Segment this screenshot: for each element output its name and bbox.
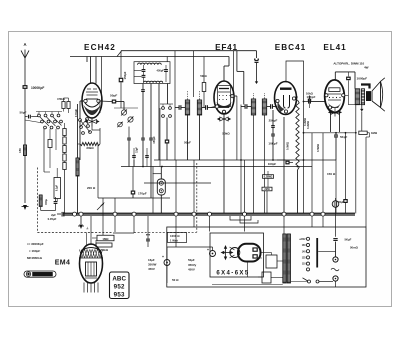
svg-text:952: 952: [114, 284, 125, 291]
svg-text:≈220V: ≈220V: [299, 238, 306, 241]
svg-text:50kΩ: 50kΩ: [222, 132, 230, 136]
svg-text:≈ 160pF: ≈ 160pF: [29, 249, 40, 253]
svg-text:150µ: 150µ: [44, 199, 48, 205]
svg-text:5KpF: 5KpF: [340, 135, 347, 139]
svg-text:0.1µF: 0.1µF: [56, 184, 59, 191]
svg-text:+: +: [207, 248, 209, 252]
svg-text:50kΩ: 50kΩ: [200, 74, 206, 78]
svg-text:ABC: ABC: [112, 276, 126, 283]
svg-text:10KpF: 10KpF: [307, 95, 316, 99]
svg-text:1 Watt: 1 Watt: [170, 238, 178, 242]
svg-text:≈≈ 3000KpF: ≈≈ 3000KpF: [27, 242, 44, 246]
svg-text:50mΩ: 50mΩ: [350, 246, 359, 250]
svg-text:1000KpF: 1000KpF: [31, 86, 44, 90]
svg-text:170pF: 170pF: [138, 192, 147, 196]
svg-text:EL41: EL41: [323, 43, 346, 52]
svg-text:100pF: 100pF: [268, 162, 277, 166]
svg-text:50pF: 50pF: [184, 141, 191, 145]
svg-text:150 Ω: 150 Ω: [327, 172, 336, 176]
svg-text:ALTOPARL. DINM 110: ALTOPARL. DINM 110: [333, 61, 364, 65]
svg-text:1000 Ω: 1000 Ω: [170, 234, 180, 238]
svg-text:150pF: 150pF: [123, 71, 127, 79]
svg-text:450V: 450V: [188, 268, 195, 272]
svg-text:EM4: EM4: [55, 260, 71, 267]
svg-text:EBC41: EBC41: [275, 43, 306, 52]
svg-text:+: +: [162, 255, 164, 259]
svg-text:A: A: [23, 42, 26, 47]
svg-text:⊥: ⊥: [86, 226, 89, 230]
svg-text:30kΩ: 30kΩ: [86, 146, 94, 150]
svg-text:0.5MΩ: 0.5MΩ: [286, 142, 290, 150]
svg-text:450V: 450V: [148, 267, 155, 271]
svg-text:MF465KHz: MF465KHz: [27, 256, 43, 260]
svg-text:450pF: 450pF: [157, 69, 165, 73]
svg-text:1MΩ: 1MΩ: [371, 131, 378, 135]
svg-text:50 Ω: 50 Ω: [172, 278, 179, 282]
svg-text:16µF: 16µF: [148, 258, 155, 262]
svg-text:5KµF: 5KµF: [345, 237, 352, 241]
svg-text:350Vy: 350Vy: [188, 263, 197, 267]
svg-text:50pF: 50pF: [20, 111, 27, 115]
svg-text:0.05µF: 0.05µF: [48, 217, 57, 221]
svg-text:2MΩ: 2MΩ: [264, 188, 269, 191]
svg-text:350/W: 350/W: [148, 263, 157, 267]
svg-text:953: 953: [114, 292, 125, 299]
svg-text:450pF: 450pF: [152, 136, 156, 144]
svg-text:15pF: 15pF: [136, 147, 139, 153]
svg-text:0.5MΩ: 0.5MΩ: [316, 144, 320, 152]
svg-text:0.2MΩ: 0.2MΩ: [306, 121, 310, 129]
svg-text:200 Ω: 200 Ω: [87, 186, 96, 190]
svg-text:1MΩ: 1MΩ: [102, 237, 109, 241]
svg-text:ECH42: ECH42: [84, 43, 116, 52]
svg-text:4W: 4W: [364, 66, 369, 70]
svg-text:50pF: 50pF: [110, 94, 117, 98]
svg-text:1000pF: 1000pF: [357, 77, 368, 81]
svg-text:50µF: 50µF: [188, 258, 195, 262]
svg-text:6X4-6X5: 6X4-6X5: [216, 271, 249, 277]
svg-text:0.28MΩ: 0.28MΩ: [264, 176, 273, 179]
svg-text:150: 150: [18, 148, 22, 153]
